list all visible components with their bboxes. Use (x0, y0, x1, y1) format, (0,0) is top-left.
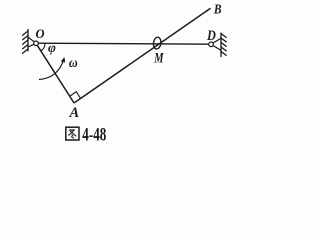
angle phi arc (41, 44, 45, 51)
right wall (221, 33, 226, 57)
rod AB (74, 8, 211, 103)
svg-text:D: D (206, 27, 216, 43)
crank OA (36, 43, 74, 103)
svg-text:4-48: 4-48 (82, 123, 106, 145)
caption glyph tu (figure) (66, 127, 79, 140)
svg-text:O: O (35, 27, 44, 41)
ring M (153, 37, 162, 50)
pivot D (209, 42, 214, 47)
svg-text:M: M (153, 50, 164, 66)
svg-text:ω: ω (69, 55, 78, 70)
svg-text:B: B (213, 1, 222, 16)
right angle at A (70, 92, 81, 99)
svg-text:A: A (68, 105, 79, 121)
omega arrow (39, 59, 64, 80)
svg-text:φ: φ (48, 40, 56, 55)
support bracket D (211, 38, 221, 50)
left wall (23, 30, 28, 54)
support bracket O (28, 37, 36, 47)
bar OD (36, 43, 211, 44)
pivot O (34, 41, 39, 46)
